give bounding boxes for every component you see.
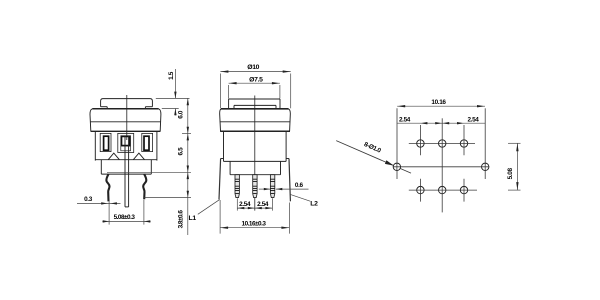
svg-text:6.5: 6.5 (177, 147, 184, 156)
svg-text:5.08: 5.08 (507, 167, 514, 179)
svg-text:2.54: 2.54 (239, 201, 251, 208)
svg-text:6.0: 6.0 (178, 110, 185, 119)
svg-text:10.16: 10.16 (431, 99, 446, 106)
svg-text:0.3: 0.3 (84, 196, 93, 203)
svg-text:1.5: 1.5 (168, 71, 175, 80)
svg-text:5.08±0.3: 5.08±0.3 (114, 214, 136, 221)
svg-text:0.6: 0.6 (295, 182, 304, 189)
svg-text:Ø7.5: Ø7.5 (249, 77, 263, 84)
svg-text:2.54: 2.54 (399, 116, 411, 123)
svg-text:2.54: 2.54 (467, 116, 479, 123)
svg-text:Ø10: Ø10 (247, 64, 259, 71)
svg-text:L1: L1 (189, 215, 197, 222)
svg-text:2.54: 2.54 (257, 201, 269, 208)
svg-text:L2: L2 (310, 200, 318, 207)
svg-text:3.8±0.6: 3.8±0.6 (177, 210, 184, 229)
svg-text:10.16±0.3: 10.16±0.3 (242, 220, 267, 227)
